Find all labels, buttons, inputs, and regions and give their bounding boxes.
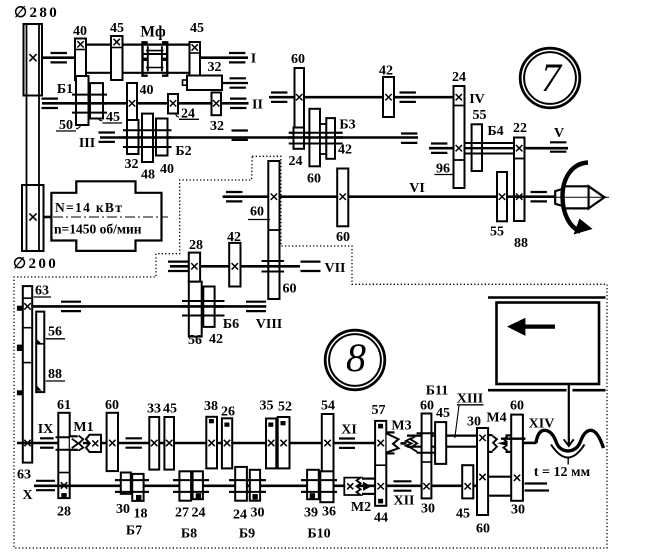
block B4 sleeve lines (465, 142, 515, 144)
block B6 gear z56 (189, 282, 202, 337)
key square B9 (253, 495, 257, 499)
key square z35 (269, 423, 273, 426)
table lower guide (488, 389, 567, 392)
svg-text:32: 32 (210, 119, 224, 134)
belt line left (26, 24, 28, 251)
shaft XIV line through col60 (509, 438, 525, 440)
svg-text:60: 60 (105, 398, 119, 413)
pulley D200 (22, 185, 44, 251)
x-mark z54 (324, 440, 330, 446)
svg-text:Б9: Б9 (239, 527, 255, 542)
gear z22-z88 column (514, 138, 525, 222)
svg-text:48: 48 (141, 168, 155, 183)
svg-text:I: I (251, 52, 256, 67)
block B10 gear z36 (320, 471, 333, 502)
svg-text:8: 8 (346, 335, 366, 380)
svg-text:36: 36 (322, 505, 336, 520)
x-mark pulley 200 (29, 213, 36, 220)
x-mark z60 IX (109, 440, 115, 446)
change gear column A (23, 286, 32, 463)
overrunning clutch housing z32 (183, 80, 188, 85)
svg-text:60: 60 (291, 52, 305, 67)
x-mark colA at IX (24, 440, 30, 446)
svg-text:60: 60 (250, 205, 264, 220)
shaft X-XII line (34, 484, 477, 487)
bearing shaft IX (40, 437, 54, 439)
svg-text:XI: XI (341, 423, 357, 438)
colB corner tab 1 (36, 339, 41, 344)
svg-text:40: 40 (160, 162, 174, 177)
x-mark col57 at XII (378, 483, 384, 489)
svg-text:32: 32 (125, 157, 139, 172)
clutch M1 left zigzag (79, 436, 84, 451)
svg-text:IV: IV (469, 92, 485, 107)
svg-text:24: 24 (233, 508, 247, 523)
svg-text:38: 38 (204, 399, 218, 414)
svg-text:VIII: VIII (256, 317, 282, 332)
shaft VIII through B6 (182, 305, 225, 308)
bearing shaft V right (550, 141, 566, 143)
bearing shaft II left (42, 97, 58, 99)
svg-text:М1: М1 (73, 420, 93, 435)
svg-text:40: 40 (140, 83, 154, 98)
svg-text:X: X (22, 488, 32, 503)
shaft I right segment (200, 56, 248, 59)
x-mark col57 at XI (378, 440, 384, 446)
block B10 collar (301, 479, 337, 481)
colA support tab 3 (17, 391, 22, 395)
svg-text:26: 26 (221, 405, 235, 420)
bearing shaft VII left (168, 261, 188, 263)
colB divider (36, 343, 44, 345)
clutch M1 right half (86, 435, 101, 452)
svg-text:88: 88 (514, 236, 528, 251)
shaft XIII leader (455, 406, 459, 439)
col57 divider (375, 464, 386, 466)
x-mark col30 lower (479, 474, 485, 480)
block B7 collar overdraw (115, 479, 149, 481)
shaft VII line (170, 265, 300, 268)
svg-text:45: 45 (110, 21, 124, 36)
x-mark z28 (191, 263, 197, 269)
bearing shaft XI (339, 437, 355, 439)
svg-text:24: 24 (452, 70, 466, 85)
svg-text:45: 45 (163, 402, 177, 417)
svg-text:61: 61 (57, 398, 71, 413)
colA support tab 1 (17, 306, 22, 310)
gear z24 B3 (294, 128, 305, 149)
col61 divider (58, 472, 69, 474)
svg-text:XII: XII (393, 494, 414, 509)
block B7 gear z30 (121, 473, 131, 494)
bearing shaft V left (431, 142, 447, 144)
svg-text:30: 30 (467, 415, 481, 430)
x-mark z33 (151, 440, 157, 446)
shaft V right segment (525, 147, 569, 150)
colA divider 1 (23, 297, 32, 299)
clutch Mf inner posts (147, 46, 149, 71)
clutch M3 blank (387, 434, 399, 452)
motor shaft segment (44, 216, 53, 219)
shaft XIII lower line (407, 446, 477, 448)
svg-text:V: V (554, 126, 564, 141)
svg-text:22: 22 (513, 121, 527, 136)
svg-text:42: 42 (379, 64, 393, 79)
svg-text:24: 24 (192, 506, 206, 521)
key square z57 (379, 424, 383, 428)
block B8 gear z27 (179, 471, 191, 500)
col22 divider (514, 158, 525, 160)
column VI-VII divider (268, 229, 279, 231)
shaft VI line (223, 195, 556, 198)
bearing shaft III right (401, 132, 417, 134)
rack under arc (551, 445, 585, 458)
bearing shaft IV mid (400, 91, 416, 93)
clutch M4 left zigzag (493, 436, 497, 451)
bearing shaft III left (99, 131, 115, 133)
shaft III line (100, 136, 418, 139)
svg-text:Б1: Б1 (57, 82, 73, 97)
shaft III through B2 (123, 136, 172, 139)
spindle centerline (550, 196, 609, 198)
shaft II through B1 (72, 102, 107, 105)
svg-text:Б2: Б2 (175, 144, 191, 159)
bearing clutch housing (230, 77, 246, 79)
svg-text:IX: IX (38, 422, 54, 437)
bearing shaft VII right (301, 261, 321, 263)
bearing shaft IX b (126, 437, 142, 439)
x-mark z40 II (129, 100, 135, 106)
table box (497, 303, 600, 385)
block B10 gear z39 (307, 470, 319, 499)
gear z42 B3 (326, 118, 335, 159)
bearing shaft VIII right (246, 301, 266, 303)
svg-text:42: 42 (209, 332, 223, 347)
key square z26 (225, 423, 229, 426)
gear z60 B3 (309, 109, 320, 167)
svg-text:45: 45 (190, 21, 204, 36)
x-mark z96 col (456, 145, 462, 151)
svg-text:55: 55 (473, 108, 487, 123)
motor axis dash-dot (53, 216, 168, 218)
shaft IX-XI line (17, 442, 375, 445)
change gear column B (36, 312, 44, 393)
svg-text:44: 44 (374, 511, 388, 526)
bearing shaft X (36, 480, 55, 482)
x-mark z88 (516, 194, 522, 200)
gear z35 (266, 419, 276, 469)
colA divider 3 (23, 362, 32, 364)
gear z60 column VI-VII (268, 161, 279, 299)
gear z40 shaft I (75, 39, 86, 81)
shaft II line (42, 102, 249, 105)
x-mark col60-30 at XII (423, 483, 429, 489)
block B3 web (320, 124, 326, 154)
svg-text:42: 42 (227, 230, 241, 245)
svg-text:t = 12 мм: t = 12 мм (534, 465, 591, 480)
belt line right (38, 24, 40, 251)
colB corner tab 2 (36, 385, 41, 391)
block B6 collar (182, 300, 225, 302)
bearing shaft VIII left (61, 301, 81, 303)
colA support tab 2 (17, 345, 22, 350)
gear z33 (149, 417, 159, 470)
svg-text:n=1450 об/мин: n=1450 об/мин (54, 222, 142, 237)
x-mark pulley 280 on shaft I (29, 54, 36, 61)
block B6 gear z42 (203, 287, 214, 327)
gear z60 shaft IV (295, 68, 305, 128)
svg-text:45: 45 (436, 406, 450, 421)
colA divider 2 (23, 327, 32, 329)
svg-text:60: 60 (510, 399, 524, 414)
svg-text:∅280: ∅280 (14, 5, 59, 21)
shaft VIII line (32, 305, 266, 308)
gear z57-z44 column (375, 421, 386, 506)
x-mark z22 (516, 145, 522, 151)
clutch M4 arrow wedge (497, 441, 507, 446)
dotted boundary figures 7-8 (14, 156, 607, 548)
rack vertical stub (567, 457, 569, 465)
shaft IV line (269, 96, 454, 99)
svg-text:III: III (79, 136, 95, 151)
svg-text:Б11: Б11 (426, 384, 448, 399)
shaft XIII upper line (407, 435, 477, 437)
key square z52 (281, 422, 285, 425)
svg-text:М4: М4 (486, 411, 506, 426)
gear z40 shaft II (127, 83, 137, 125)
svg-text:Б8: Б8 (181, 527, 197, 542)
block B1 gear z45 (90, 83, 103, 118)
sleeve lines col30-col60 (488, 476, 511, 478)
table upper guide (488, 296, 606, 299)
column divider a (454, 105, 465, 107)
shaft I sleeve bottom line (86, 72, 190, 74)
block B10 collar overdraw (301, 479, 337, 481)
svg-text:Б3: Б3 (339, 118, 355, 133)
gear z26 (222, 418, 232, 468)
table drive arrow head (564, 439, 574, 446)
svg-text:60: 60 (283, 282, 297, 297)
block B7 collar (115, 479, 149, 481)
x-mark z42 VII (232, 263, 238, 269)
svg-text:∅200: ∅200 (13, 256, 58, 272)
bearing shaft VI right (531, 191, 547, 193)
svg-text:55: 55 (490, 225, 504, 240)
x-mark z60 IV (296, 94, 302, 100)
pulley D280 (24, 24, 43, 96)
svg-text:27: 27 (175, 506, 189, 521)
gear z55 shaft VI (497, 172, 507, 221)
svg-text:Б10: Б10 (307, 527, 330, 542)
svg-text:N=14 кВт: N=14 кВт (55, 200, 123, 215)
block B9 gear z24 (235, 467, 247, 501)
svg-text:40: 40 (73, 24, 87, 39)
block B7 gear z18 (132, 474, 143, 501)
block B3 sleeve lines overdraw (289, 132, 343, 134)
shaft XIV inner line (501, 438, 525, 440)
svg-text:30: 30 (251, 506, 265, 521)
bearing shaft IV left (271, 91, 287, 93)
clutch M4 left bars (488, 434, 493, 436)
rotation arc arrow (563, 163, 589, 232)
x-mark z24 col (456, 94, 462, 100)
clutch M3 right half (406, 438, 412, 448)
spindle cone tip (589, 186, 605, 208)
table drive line (568, 384, 570, 446)
key square B8 (196, 494, 200, 498)
clutch M2 right half (363, 482, 372, 491)
svg-text:60: 60 (307, 172, 321, 187)
x-mark z55 VI (499, 194, 505, 200)
gear z60-z30 column XIV (511, 415, 523, 501)
svg-text:28: 28 (57, 505, 71, 520)
clutch M1 left chevron (72, 439, 79, 448)
bearing shaft III mid (232, 129, 248, 131)
x-mark z38 (208, 440, 214, 446)
clutch M3 shaft stub (401, 442, 407, 445)
x-mark z60 on VI (271, 194, 277, 200)
svg-text:45: 45 (456, 507, 470, 522)
block B2 collar (123, 129, 172, 131)
svg-text:63: 63 (35, 284, 49, 299)
col60-30 divider (422, 461, 432, 463)
svg-text:24: 24 (289, 154, 303, 169)
svg-text:39: 39 (304, 506, 318, 521)
x-mark z45 IX (166, 440, 172, 446)
svg-text:60: 60 (476, 522, 490, 537)
svg-text:56: 56 (188, 333, 202, 348)
bearing shaft VI left (226, 191, 242, 193)
clutch M1 left bars (70, 435, 78, 437)
clutch M3 left half (387, 431, 395, 433)
clutch M2 box (344, 478, 360, 495)
svg-text:28: 28 (189, 238, 203, 253)
block B2 gear z32 (127, 120, 139, 154)
x-mark z52 (280, 440, 286, 446)
clutch Mf cross lines (146, 50, 164, 52)
svg-text:30: 30 (116, 502, 130, 517)
svg-text:57: 57 (372, 403, 386, 418)
gear block z24-z96 column (454, 86, 465, 188)
gear z61-z28 column (58, 413, 69, 498)
gear z42 VII (229, 243, 240, 287)
block B2 gear z48 (142, 114, 153, 162)
bearing shaft I left (51, 52, 67, 54)
key square B10 (310, 494, 314, 498)
svg-text:Б7: Б7 (126, 524, 142, 539)
svg-text:33: 33 (147, 402, 161, 417)
x-mark col30 at XIII (479, 435, 485, 441)
gear z24 shaft II (168, 94, 178, 114)
block B9 gear z30 (250, 470, 260, 501)
svg-text:56: 56 (48, 325, 62, 340)
svg-text:42: 42 (338, 143, 352, 158)
x-mark col60XIV lower (514, 475, 520, 481)
x-mark z42 IV (385, 94, 391, 100)
clutch housing shaft stub (222, 82, 248, 84)
gear z32 shaft II (212, 93, 222, 116)
gear z55 B4 (472, 124, 482, 171)
svg-text:63: 63 (17, 468, 31, 483)
x-mark z45 XII (465, 483, 471, 489)
key square B7 (137, 495, 141, 499)
gear z30-z60 column right (477, 428, 488, 515)
svg-text:88: 88 (48, 367, 62, 382)
spindle body (563, 186, 588, 208)
x-mark z24 II (170, 100, 176, 106)
svg-text:32: 32 (208, 60, 222, 75)
block B9 collar overdraw (229, 479, 266, 481)
svg-text:60: 60 (420, 399, 434, 414)
x-mark z26 (224, 440, 230, 446)
block B8 collar overdraw (173, 479, 209, 481)
svg-text:Мф: Мф (140, 24, 166, 41)
bearing shaft I right (229, 52, 245, 54)
gear z60 shaft IX (107, 413, 118, 471)
col61 collar at IX (56, 436, 81, 438)
table arrow (507, 318, 525, 336)
svg-text:Б4: Б4 (487, 124, 503, 139)
gear z42 shaft IV (383, 77, 394, 117)
gear z45 XIII (435, 422, 446, 464)
gear z45b shaft I (190, 42, 201, 84)
x-mark colA at VIII (24, 303, 30, 309)
clutch Mf middle stubs (142, 58, 149, 61)
shaft XIV line (523, 442, 537, 445)
clutch Mf left bracket (143, 42, 148, 75)
shaft V through B4 (465, 147, 515, 149)
x-mark z32 II (213, 100, 219, 106)
clutch Mf right bracket (162, 42, 167, 75)
svg-text:Б6: Б6 (223, 317, 239, 332)
svg-text:7: 7 (541, 55, 563, 100)
svg-text:35: 35 (260, 399, 274, 414)
clutch M4 right zigzag (503, 436, 507, 451)
shaft III segment through B3 (288, 136, 343, 139)
svg-text:30: 30 (421, 502, 435, 517)
block B8 collar (173, 479, 209, 481)
svg-text:М3: М3 (391, 419, 411, 434)
svg-text:60: 60 (336, 230, 350, 245)
x-mark z35 (268, 440, 274, 446)
block B4 sleeve overdraw (465, 142, 515, 144)
gear z38 (206, 417, 217, 469)
clutch M1 left blank (70, 437, 83, 450)
col60-30 collar at XIII (417, 432, 437, 434)
bearing shaft XII (394, 480, 412, 482)
svg-text:18: 18 (134, 507, 148, 522)
key square z44 (379, 499, 383, 503)
gear z45 IX (164, 417, 174, 470)
block B2 gear z40 (156, 119, 168, 156)
gear z45 XII (462, 465, 473, 498)
svg-text:VI: VI (409, 181, 425, 196)
key square z38 (209, 420, 213, 423)
block B1 collar (72, 94, 107, 96)
collar column at VII (262, 260, 285, 262)
block B3 sleeve lines (289, 132, 343, 134)
svg-text:30: 30 (511, 503, 525, 518)
gear z45a shaft I (111, 36, 123, 80)
shaft V left segment (429, 147, 454, 150)
block B1 gear z50 (76, 76, 89, 125)
figure 8 circle (325, 330, 385, 390)
shaft I left segment (42, 56, 76, 59)
svg-text:М2: М2 (351, 500, 371, 515)
column divider b (454, 159, 465, 161)
motor outline (51, 181, 161, 251)
spindle collar (555, 189, 563, 207)
